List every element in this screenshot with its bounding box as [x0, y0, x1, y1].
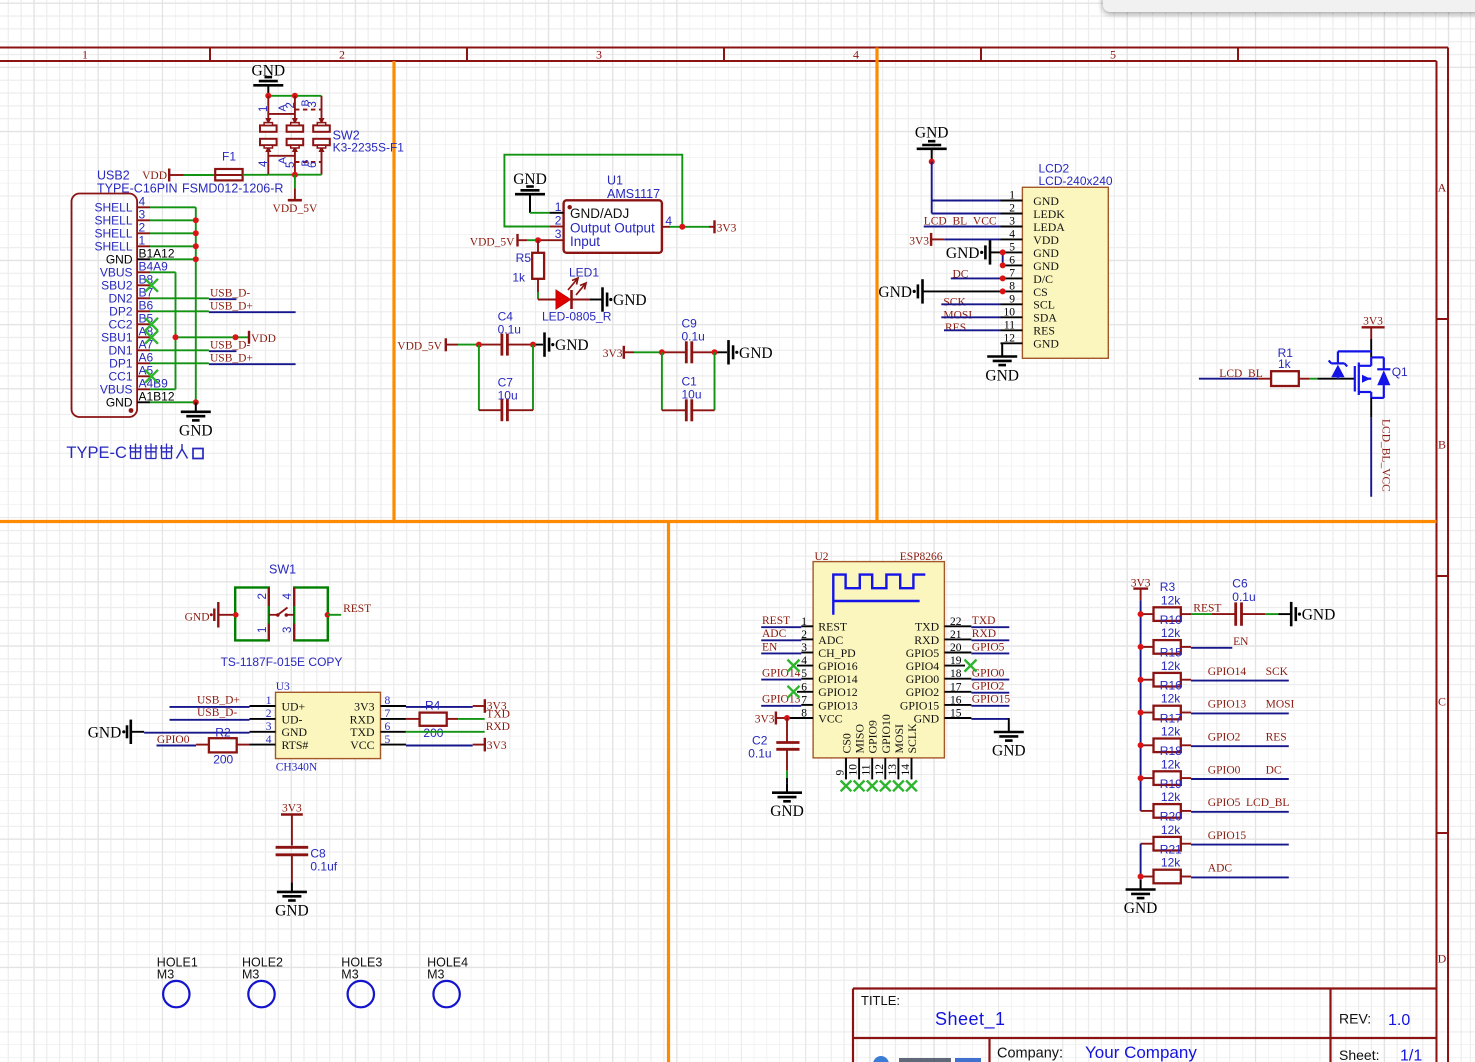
svg-text:3V3: 3V3 [755, 713, 775, 725]
ground GND at LCD2 pin8 [878, 279, 1002, 303]
wire 3V3 to C9 [624, 351, 687, 353]
ground GND below C8 [291, 882, 293, 892]
wire VBUS pin B4A9 [150, 271, 176, 273]
net label SCK [941, 296, 1000, 308]
transistor Q1 PMOS [1355, 357, 1408, 398]
U2 pin 5 GPIO14 [801, 668, 857, 686]
power flag 3V3 at LCD2 VDD [909, 233, 1000, 247]
ground GND below USB2 [195, 402, 197, 412]
svg-text:10: 10 [1004, 307, 1016, 319]
svg-text:9: 9 [835, 770, 847, 776]
svg-text:ADC: ADC [818, 633, 843, 647]
IC U3 CH340N [276, 681, 381, 774]
power flag 3V3 at C8 [281, 803, 303, 846]
svg-text:0.1uf: 0.1uf [310, 860, 337, 874]
net label USB_D+ (DP1) [209, 363, 296, 365]
no-connect X on pin B8 [145, 279, 158, 292]
svg-text:Your Company: Your Company [1085, 1043, 1197, 1062]
svg-text:VDD_5V: VDD_5V [470, 237, 515, 249]
no-connect X at U2 pin 14 [906, 781, 917, 792]
svg-text:VDD: VDD [142, 170, 167, 182]
svg-text:12: 12 [874, 764, 886, 776]
SW2 pin labels [258, 99, 319, 168]
svg-text:3V3: 3V3 [603, 348, 623, 360]
svg-text:Sheet:: Sheet: [1339, 1047, 1379, 1062]
net label GPIO15 [1181, 830, 1289, 845]
pin A1B12 GND stub [137, 401, 150, 403]
wire SW2 bottom [268, 174, 321, 176]
svg-text:4: 4 [853, 48, 859, 62]
ground GND below C2 [786, 783, 788, 793]
svg-text:GPIO0: GPIO0 [157, 734, 190, 746]
U2 pin 9 CS0 [835, 733, 854, 779]
svg-text:R3: R3 [1160, 580, 1176, 594]
svg-text:CS: CS [1033, 285, 1047, 299]
svg-text:1: 1 [266, 695, 272, 707]
svg-text:UD+: UD+ [282, 699, 306, 713]
svg-text:MOSI: MOSI [1266, 699, 1295, 711]
svg-text:CH_PD: CH_PD [818, 646, 856, 660]
svg-text:SHELL: SHELL [94, 201, 132, 215]
svg-text:CS0: CS0 [840, 733, 854, 753]
svg-text:GND: GND [1124, 900, 1158, 917]
junction dot LCD2 pin7 [1000, 275, 1006, 281]
svg-text:GPIO2: GPIO2 [1208, 732, 1241, 744]
svg-text:GND: GND [770, 803, 804, 820]
junction dot trunk R17 [1138, 742, 1144, 748]
wire GND pin A1B12 [150, 401, 196, 403]
wire F1 to SW2 [243, 174, 269, 176]
svg-text:GND: GND [106, 253, 133, 267]
svg-text:12k: 12k [1161, 856, 1181, 870]
no-connect X on pin A5 [145, 370, 158, 383]
svg-text:R17: R17 [1160, 711, 1182, 725]
junction dot at USB2 box corner [129, 408, 134, 413]
pin A5 CC1 stub [137, 375, 150, 377]
switch SW2 K3-2235S-F1 [333, 129, 405, 155]
no-connect X at U2 pin 13 [893, 781, 904, 792]
svg-text:EN: EN [1233, 636, 1249, 648]
pin 2 SHELL stub [137, 232, 150, 234]
resistor R21 12k [1141, 843, 1183, 884]
svg-text:GPIO2: GPIO2 [906, 685, 940, 699]
junction dot VDD tap [233, 334, 239, 340]
zener diode at Q1 gate [1329, 351, 1372, 378]
svg-text:GPIO15: GPIO15 [972, 694, 1011, 706]
wire C9 right to GND [692, 351, 727, 353]
power flag 3V3 at U1 output [715, 220, 737, 234]
orange section divider horizontal [0, 520, 1437, 523]
svg-text:B: B [1438, 438, 1446, 452]
svg-text:REST: REST [762, 615, 790, 627]
wire DP1 to USB_D+ [150, 362, 209, 364]
junction dot trunk R15 [1138, 677, 1144, 683]
wire VBUS pin A4B9 [150, 388, 176, 390]
svg-text:SCK: SCK [1266, 666, 1289, 678]
svg-text:R20: R20 [1160, 810, 1182, 824]
svg-text:U1: U1 [607, 174, 623, 188]
svg-text:A: A [276, 157, 288, 164]
svg-text:RTS#: RTS# [282, 738, 309, 752]
LCD2 pin 1 GND [1001, 190, 1060, 208]
capacitor C2 0.1u [748, 718, 799, 783]
net label GPIO14 SCK [1181, 666, 1289, 681]
svg-text:4: 4 [1009, 229, 1015, 241]
svg-text:FSMD012-1206-R: FSMD012-1206-R [182, 182, 283, 196]
svg-text:3: 3 [555, 227, 562, 241]
svg-text:TXD: TXD [486, 709, 510, 721]
wire R20 R21 to GND [1140, 844, 1142, 880]
fuse F1 FSMD012-1206-R [215, 150, 242, 181]
svg-text:GPIO15: GPIO15 [1208, 830, 1247, 842]
junction dot C9 left [659, 349, 665, 355]
svg-text:LCD_BL: LCD_BL [1246, 797, 1289, 809]
orange section divider vertical right [875, 48, 878, 522]
svg-text:C7: C7 [498, 376, 514, 390]
svg-text:GND: GND [1033, 337, 1059, 351]
svg-text:EN: EN [762, 641, 778, 653]
power flag 3V3 at Q1 [1362, 316, 1385, 358]
svg-text:GND/ADJ: GND/ADJ [570, 206, 629, 221]
svg-text:GND: GND [915, 125, 949, 142]
wire VBUS trunk vertical [175, 272, 177, 389]
svg-text:SHELL: SHELL [94, 240, 132, 254]
no-connect X on pin A8 [145, 331, 158, 344]
wire VDD to F1 [169, 174, 215, 176]
U2 pin 2 ADC [801, 629, 843, 647]
wire U3 pin6 RXD [406, 731, 485, 733]
LCD2 pin 5 GND [1001, 242, 1060, 260]
junction dot SW1 right [325, 612, 331, 618]
ground GND at U2 pin15 [1008, 723, 1010, 733]
svg-text:1: 1 [1009, 190, 1015, 202]
resistor R4 200 [406, 699, 485, 740]
svg-text:12k: 12k [1161, 626, 1181, 640]
svg-text:USB_D-: USB_D- [197, 707, 237, 719]
svg-text:RXD: RXD [972, 628, 996, 640]
U2 pin 10 MISO [848, 724, 867, 780]
svg-text:GND: GND [914, 711, 940, 725]
U2 pin 16 GPIO15 [900, 694, 962, 712]
svg-text:LEDK: LEDK [1033, 207, 1065, 221]
svg-text:GPIO16: GPIO16 [818, 659, 857, 673]
net label RES [944, 322, 1001, 334]
wire C1 branch right [714, 352, 716, 410]
svg-text:GPIO2: GPIO2 [972, 681, 1005, 693]
LCD2 pin 9 SCL [1001, 294, 1055, 312]
module U2 ESP8266 [813, 551, 944, 758]
svg-text:C4: C4 [498, 309, 514, 323]
svg-text:VDD: VDD [251, 333, 276, 345]
svg-text:UD-: UD- [282, 712, 303, 726]
svg-text:LED1: LED1 [569, 266, 599, 280]
wire C4 right to GND [507, 344, 543, 346]
ground GND below ladder [1140, 880, 1142, 890]
net label USB_D+ at U3 [170, 694, 250, 707]
svg-text:0.1u: 0.1u [1232, 590, 1255, 604]
svg-text:1k: 1k [512, 271, 526, 285]
junction dot trunk R18 [1138, 775, 1144, 781]
power flag VDD [248, 331, 250, 344]
U3 pin 4 RTS# [250, 734, 309, 752]
svg-text:SDA: SDA [1033, 311, 1057, 325]
svg-text:LEDA: LEDA [1033, 220, 1065, 234]
resistor R17 12k [1141, 711, 1183, 752]
junction dot R21 [1138, 874, 1144, 880]
svg-text:RXD: RXD [486, 721, 510, 733]
svg-text:SCK: SCK [943, 296, 966, 308]
net label GPIO13 at U2 pin 7 [761, 694, 813, 706]
LCD2 pin 11 RES [1001, 320, 1055, 338]
LCD2 pin 12 GND [1001, 333, 1060, 351]
LCD2 pin 10 SDA [1001, 307, 1058, 325]
junction dot SW2 bottom [292, 172, 298, 178]
mounting hole HOLE2 M3 [242, 955, 283, 1007]
svg-text:3: 3 [596, 48, 602, 62]
svg-text:GND: GND [985, 368, 1019, 385]
svg-text:10u: 10u [682, 387, 702, 401]
U2 pin 20 GPIO5 [906, 642, 962, 660]
svg-text:GND: GND [275, 902, 309, 919]
ground GND above SW2 [267, 85, 269, 96]
wire VBUS tap to VDD flag [176, 336, 249, 338]
svg-text:TXD: TXD [972, 615, 996, 627]
svg-text:2: 2 [555, 213, 562, 227]
ground GND at C9 [727, 340, 730, 364]
wire VDD_5V to U1 pin3 [518, 239, 564, 241]
pin B1A12 GND stub [137, 258, 150, 260]
svg-text:VDD_5V: VDD_5V [273, 203, 318, 215]
pin B7 DN2 stub [137, 297, 150, 299]
junction dots on GND trunk [193, 217, 199, 223]
junction dots LCD2 pins 5-6 [1000, 249, 1006, 255]
svg-text:ADC: ADC [762, 628, 787, 640]
no-connect X at U2 pin 19 [944, 660, 976, 672]
svg-text:GND: GND [1302, 607, 1336, 624]
U3 pin 3 GND [250, 721, 308, 739]
junction dot trunk R16 [1138, 710, 1144, 716]
wire Q1 source to LCD_BL_VCC [1370, 398, 1372, 497]
svg-text:1.0: 1.0 [1388, 1012, 1410, 1029]
connector LCD2 LCD-240x240 [1022, 162, 1112, 359]
svg-text:REV:: REV: [1339, 1011, 1371, 1027]
net label GPIO0 at R2 [157, 734, 197, 746]
wire DN2 to USB_D- [150, 297, 209, 299]
capacitor C9 0.1u [682, 316, 705, 363]
pin A8 SBU1 stub [137, 336, 150, 338]
svg-text:5: 5 [1110, 48, 1116, 62]
U2 pin 17 GPIO2 [906, 681, 962, 699]
LED LED1 LED-0805_R [538, 266, 612, 324]
svg-text:MOSI: MOSI [892, 724, 906, 754]
net label GPIO0 DC [1181, 764, 1289, 779]
resistor R15 12k [1141, 646, 1183, 687]
pin B4A9 VBUS stub [137, 271, 150, 273]
svg-text:3V3: 3V3 [909, 235, 929, 247]
net label DC [951, 268, 1003, 280]
pin A6 DP1 stub [137, 362, 150, 364]
ground GND at U3 pin3 [88, 720, 250, 744]
wire SW1 to REST [327, 614, 341, 616]
ground GND above LCD2 [915, 125, 949, 162]
svg-text:TXD: TXD [915, 620, 940, 634]
svg-text:SCLK: SCLK [905, 723, 919, 754]
svg-text:GPIO13: GPIO13 [762, 694, 801, 706]
svg-text:R19: R19 [1160, 777, 1182, 791]
resistor R16 12k [1141, 679, 1183, 720]
junction dot C4 right [530, 342, 536, 348]
U2 pin 12 GPIO10 [874, 714, 893, 779]
U3 pin 2 UD- [250, 708, 303, 726]
svg-text:D: D [1438, 952, 1447, 966]
no-connect X at U2 pin 9 [841, 781, 852, 792]
svg-text:GND: GND [88, 724, 122, 741]
net label ADC [1181, 863, 1289, 878]
svg-text:6: 6 [385, 721, 391, 733]
net label REST at U2 pin 1 [761, 615, 813, 627]
junction dot LCD2 pin8 [1000, 288, 1006, 294]
capacitor C1 10u [662, 374, 715, 421]
no-connect X at U2 pin 12 [880, 781, 891, 792]
LCD2 pin 8 CS [1001, 281, 1048, 299]
junction dot GND stem [929, 159, 935, 165]
wire DP2 to USB_D+ [150, 310, 209, 312]
svg-text:1: 1 [257, 627, 269, 633]
svg-text:VDD: VDD [1033, 233, 1059, 247]
svg-text:USB_D+: USB_D+ [197, 694, 240, 706]
power flag 3V3 at U3 pin5 [406, 738, 507, 752]
svg-text:GPIO14: GPIO14 [1208, 666, 1247, 678]
svg-text:GND: GND [555, 337, 589, 354]
net label LCD_BL_VCC [924, 216, 1001, 228]
svg-text:USB_D+: USB_D+ [210, 301, 253, 313]
junction dot VBUS trunk tap [173, 334, 179, 340]
svg-text:CC1: CC1 [108, 370, 132, 384]
svg-text:12k: 12k [1161, 757, 1181, 771]
resistor R19 12k [1141, 777, 1183, 818]
mounting hole HOLE4 M3 [427, 955, 468, 1007]
junction dot R5 tap [535, 237, 541, 243]
mounting hole HOLE1 M3 [157, 955, 198, 1007]
svg-text:GND: GND [252, 62, 286, 79]
power flag 3V3 at C9 [603, 346, 624, 360]
U2 pin 13 MOSI [887, 724, 906, 779]
svg-text:GPIO10: GPIO10 [879, 714, 893, 753]
svg-text:14: 14 [900, 764, 912, 776]
LCD2 pin 6 GND [1001, 255, 1060, 273]
net label GPIO2 RES [1181, 732, 1289, 747]
svg-text:VBUS: VBUS [100, 266, 133, 280]
net label USB_D+ (DP2) [209, 311, 296, 313]
svg-text:R4: R4 [425, 699, 441, 713]
U2 pin 8 VCC [801, 708, 842, 726]
orange section divider vertical bottom [667, 522, 670, 1062]
LCD2 pin 3 LEDA [1001, 216, 1066, 234]
svg-text:3V3: 3V3 [487, 740, 507, 752]
svg-text:1k: 1k [1278, 357, 1292, 371]
no-connect X at U2 pin 10 [854, 781, 865, 792]
svg-text:7: 7 [1009, 268, 1015, 280]
svg-text:DP2: DP2 [109, 305, 133, 319]
svg-text:3: 3 [266, 721, 272, 733]
svg-text:DP1: DP1 [109, 357, 133, 371]
svg-text:5: 5 [1009, 242, 1015, 254]
pin A7 DN1 stub [137, 349, 150, 351]
switch SW1 TS-1187F-015E [221, 563, 343, 670]
wire SHELL pins to GND trunk [150, 206, 196, 208]
svg-text:GPIO0: GPIO0 [906, 672, 940, 686]
no-connect X at U2 pin 11 [867, 781, 878, 792]
svg-text:SBU2: SBU2 [101, 279, 133, 293]
svg-text:M3: M3 [341, 968, 358, 982]
power flag VDD_5V at U1 pin3 [470, 234, 518, 249]
net label REST wire to C6 [1181, 603, 1235, 615]
wire GND pin B1A12 [150, 258, 196, 260]
junction dot trunk R3 [1138, 611, 1144, 617]
no-connect X on pin B5 [145, 318, 158, 331]
orange section divider vertical left [392, 61, 395, 522]
power flag 3V3 at U3 pin8 [406, 699, 507, 713]
svg-text:M3: M3 [427, 968, 444, 982]
svg-text:SHELL: SHELL [94, 214, 132, 228]
pin B6 DP2 stub [137, 310, 150, 312]
svg-text:F1: F1 [222, 150, 236, 164]
svg-text:Sheet_1: Sheet_1 [935, 1009, 1006, 1030]
U2 pin 3 CH_PD [801, 642, 856, 660]
resistor R3 12k [1141, 580, 1182, 621]
svg-text:C1: C1 [682, 374, 698, 388]
svg-text:GND: GND [1033, 259, 1059, 273]
svg-text:3V3: 3V3 [1363, 316, 1383, 328]
wire C1 branch left [661, 352, 663, 410]
EasyEDA logo sliver [873, 1056, 981, 1062]
svg-text:GND: GND [992, 743, 1026, 760]
resistor R2 200 [196, 725, 249, 766]
junction dots SW2 top [265, 93, 271, 99]
svg-text:C6: C6 [1232, 577, 1248, 591]
svg-text:RES: RES [945, 322, 966, 334]
svg-text:D/C: D/C [1033, 272, 1053, 286]
ground GND at C6 [1290, 602, 1293, 626]
svg-text:Company:: Company: [997, 1046, 1063, 1062]
svg-text:Input: Input [570, 234, 600, 249]
resistor R20 12k [1141, 810, 1183, 851]
U2 pin 6 GPIO12 [801, 681, 857, 699]
svg-text:11: 11 [861, 764, 873, 775]
svg-text:GPIO14: GPIO14 [762, 668, 801, 680]
net label USB_D- at U3 [170, 707, 250, 720]
svg-text:3: 3 [1009, 216, 1015, 228]
svg-text:12k: 12k [1161, 659, 1181, 673]
capacitor C7 10u [479, 376, 533, 422]
net label USB_D- (DN2) [209, 298, 237, 300]
wire ladder trunk [1140, 600, 1142, 811]
net label GPIO15 at U2 pin 16 [944, 694, 1010, 706]
net label TXD at U2 pin 22 [944, 615, 1009, 627]
svg-text:VBUS: VBUS [100, 383, 133, 397]
svg-text:GPIO13: GPIO13 [1208, 699, 1247, 711]
junction dot U2 VCC [784, 715, 790, 721]
pin 4 SHELL stub [137, 206, 150, 208]
svg-text:3V3: 3V3 [282, 803, 302, 815]
net label EN [1181, 636, 1249, 648]
ground GND below LCD2 pin12 [985, 343, 1019, 384]
ESP8266 logo [833, 575, 925, 615]
svg-text:C9: C9 [682, 316, 698, 330]
svg-text:3: 3 [282, 627, 294, 633]
net label RXD at U2 pin 21 [944, 628, 1009, 640]
wire VDD_5V to C4 [446, 344, 502, 346]
